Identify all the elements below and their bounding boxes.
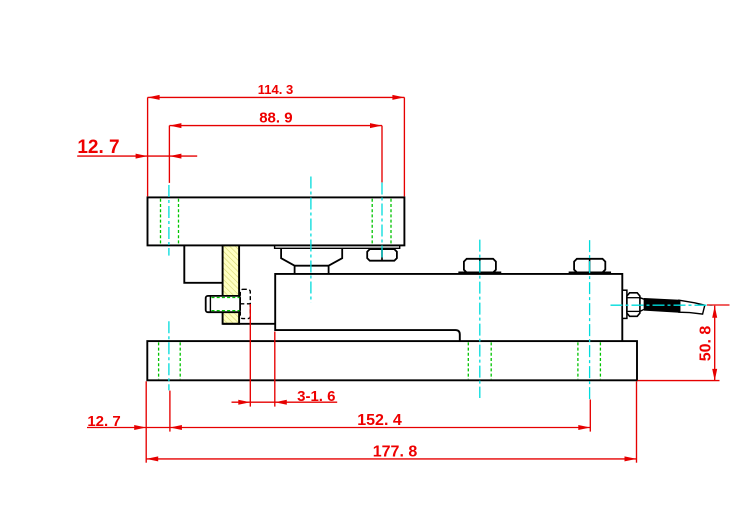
bottom plate middle hole hidden lines <box>468 342 491 379</box>
dimension 114.3 <box>148 97 405 196</box>
svg-text:114. 3: 114. 3 <box>258 82 293 97</box>
cable end (clear tube) <box>679 300 705 314</box>
svg-text:12. 7: 12. 7 <box>87 413 120 430</box>
dimension 177.8 <box>146 381 636 462</box>
dimension 12.7 bottom and 152.4 <box>87 381 590 462</box>
hatched stand-off bar <box>223 245 240 323</box>
centerline cable <box>611 304 713 306</box>
top plate left hole hidden lines <box>161 199 179 245</box>
svg-text:12. 7: 12. 7 <box>77 137 119 158</box>
cable gland hex nut <box>627 293 640 317</box>
top plate <box>148 197 405 245</box>
bottom plate <box>147 341 637 380</box>
left bracket step block <box>184 245 222 282</box>
svg-text:50. 8: 50. 8 <box>698 326 715 362</box>
shim line under top plate <box>275 246 400 249</box>
centerline top-left hole <box>168 185 170 390</box>
dimension 3-1.6 <box>232 304 338 407</box>
dimension 50.8 <box>638 305 730 381</box>
svg-text:88. 9: 88. 9 <box>259 110 292 127</box>
bracket foot line <box>223 323 276 325</box>
washer 2 <box>570 272 611 274</box>
svg-text:177. 8: 177. 8 <box>373 444 418 461</box>
top plate right hole hidden lines <box>372 199 391 245</box>
cable gland flange <box>622 290 627 318</box>
load cell mounting bolt 1 <box>464 259 496 273</box>
dimension 12.7 top <box>77 155 197 157</box>
centerline load button <box>310 177 312 303</box>
washer 1 <box>459 272 500 274</box>
dimension 88.9 <box>169 126 382 183</box>
bottom plate right hole hidden lines <box>578 342 601 379</box>
bolt fixing top plate (hex head below plate) <box>367 249 397 261</box>
load button <box>281 248 342 274</box>
centerline bolt 1 <box>479 240 481 398</box>
cable (black boot) <box>644 299 679 313</box>
centerline bolt 2 <box>589 240 591 399</box>
load cell body <box>275 274 622 341</box>
load cell mounting bolt 2 <box>574 259 605 273</box>
hidden hex nut (dashed) <box>240 289 250 318</box>
svg-text:152. 4: 152. 4 <box>357 412 402 429</box>
gland taper <box>640 298 645 312</box>
svg-text:3-1. 6: 3-1. 6 <box>297 388 335 405</box>
bottom plate left hole hidden lines <box>159 342 181 379</box>
centerline top-right hole <box>381 183 383 259</box>
adjusting bolt <box>206 296 240 312</box>
bolt thread hidden lines <box>212 298 240 311</box>
